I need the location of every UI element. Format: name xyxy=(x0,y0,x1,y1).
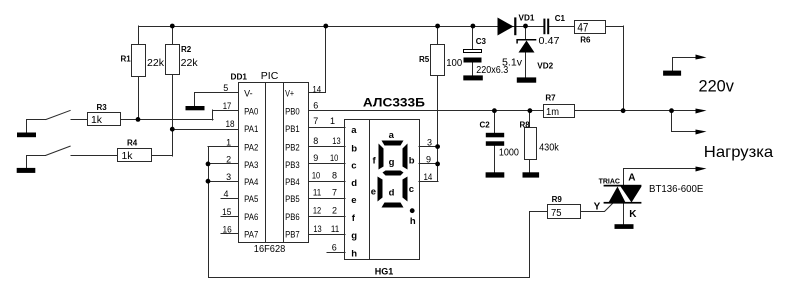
svg-text:12: 12 xyxy=(313,206,321,216)
resistor R6 xyxy=(575,21,606,34)
svg-text:a: a xyxy=(351,125,357,136)
svg-text:4: 4 xyxy=(223,189,228,199)
svg-text:Нагрузка: Нагрузка xyxy=(704,144,774,161)
ground R8 xyxy=(523,172,540,177)
svg-text:V-: V- xyxy=(244,88,253,98)
wire R4 row xyxy=(71,155,118,157)
svg-text:BT136-600E: BT136-600E xyxy=(649,184,704,195)
svg-text:PB2: PB2 xyxy=(285,143,300,153)
node PA3 / gate net xyxy=(206,162,211,167)
svg-text:17: 17 xyxy=(223,101,232,111)
switch S2 lever xyxy=(45,146,70,156)
switch S1 lever xyxy=(46,110,71,119)
wire PA2 PA3 PA4 stubs xyxy=(208,146,238,148)
svg-text:DD1: DD1 xyxy=(231,73,248,82)
svg-text:14: 14 xyxy=(312,85,321,95)
svg-text:13: 13 xyxy=(313,224,321,234)
svg-text:PA7: PA7 xyxy=(244,230,258,240)
svg-text:220v: 220v xyxy=(699,76,735,95)
wire R2 leads xyxy=(172,26,174,44)
wire pin5 V- to ground xyxy=(195,93,239,107)
arrow terminal 220v mid rail xyxy=(696,109,707,114)
svg-text:3: 3 xyxy=(226,172,231,182)
resistor R9 xyxy=(548,205,581,219)
svg-text:HG1: HG1 xyxy=(375,267,394,277)
svg-text:1k: 1k xyxy=(91,115,103,126)
segment c xyxy=(403,177,408,202)
triac VS1 xyxy=(604,185,642,204)
svg-text:АЛС333Б: АЛС333Б xyxy=(363,97,425,109)
svg-text:2: 2 xyxy=(332,206,337,216)
node PA4 / gate net xyxy=(206,179,211,184)
wire triac cathode to ground xyxy=(623,203,625,224)
svg-text:h: h xyxy=(410,216,416,227)
svg-text:R4: R4 xyxy=(127,139,138,148)
svg-text:PB3: PB3 xyxy=(285,160,300,170)
digit segment labels xyxy=(371,130,416,227)
svg-text:PIC: PIC xyxy=(261,70,279,82)
svg-text:47: 47 xyxy=(577,21,588,35)
svg-text:R3: R3 xyxy=(97,103,108,112)
diode VD1 xyxy=(498,17,517,35)
svg-text:R6: R6 xyxy=(580,36,591,45)
svg-text:C1: C1 xyxy=(555,14,566,23)
node mid rail / terminals xyxy=(669,108,674,113)
wire mid rail PB0 to R7 to arrows xyxy=(309,110,543,112)
resistor R1 xyxy=(132,45,146,77)
svg-text:PB0: PB0 xyxy=(285,106,300,116)
arrow terminal 220v top xyxy=(696,55,707,60)
segment h dot xyxy=(410,208,415,213)
svg-text:1: 1 xyxy=(330,116,335,126)
svg-text:e: e xyxy=(371,186,376,197)
wire arrow3 branch xyxy=(672,111,696,132)
svg-text:8: 8 xyxy=(332,171,337,181)
zener VD2 xyxy=(517,40,536,44)
ground C2 xyxy=(486,172,505,177)
wire PA5 PA6 PA7 stubs xyxy=(221,198,238,200)
svg-text:14: 14 xyxy=(424,172,433,182)
wire R9 to gate xyxy=(581,203,614,212)
svg-text:1000: 1000 xyxy=(499,147,519,158)
ground triac xyxy=(615,224,634,229)
svg-text:6: 6 xyxy=(313,101,318,111)
svg-text:7: 7 xyxy=(313,116,318,126)
svg-text:1k: 1k xyxy=(122,151,134,162)
resistor R5 xyxy=(431,45,445,76)
capacitor C1 xyxy=(543,19,549,35)
wire R5 vertical xyxy=(437,26,439,44)
node +V rail / R5 top xyxy=(435,24,440,29)
svg-text:C3: C3 xyxy=(476,37,487,46)
wire 220v terminal xyxy=(673,58,696,71)
wire pin14 V+ up to rail xyxy=(309,27,326,93)
segment b xyxy=(403,144,408,170)
svg-text:c: c xyxy=(351,161,356,172)
svg-text:VD2: VD2 xyxy=(537,61,553,70)
svg-text:g: g xyxy=(351,230,357,241)
svg-text:b: b xyxy=(351,143,357,154)
segment d xyxy=(382,203,404,208)
svg-text:9: 9 xyxy=(313,153,318,163)
resistor R4 xyxy=(118,149,152,162)
svg-text:16: 16 xyxy=(223,224,232,234)
ground VD2 xyxy=(517,77,536,82)
node mid rail / R6 xyxy=(621,108,626,113)
segment f xyxy=(379,144,384,170)
svg-text:R8: R8 xyxy=(520,120,531,129)
node display pin9 xyxy=(435,162,440,167)
svg-text:2: 2 xyxy=(226,155,231,165)
svg-text:8: 8 xyxy=(313,136,318,146)
svg-text:d: d xyxy=(389,187,395,198)
svg-text:18: 18 xyxy=(226,119,235,129)
resistor R7 xyxy=(544,105,575,118)
ground switch1 xyxy=(17,133,36,138)
node mid rail / C2 xyxy=(492,108,497,113)
svg-text:75: 75 xyxy=(551,208,562,219)
svg-text:0.47: 0.47 xyxy=(539,36,560,47)
svg-text:11: 11 xyxy=(331,224,339,234)
display pin numbers xyxy=(330,116,341,252)
capacitor C2 xyxy=(486,133,504,146)
svg-text:5.1v: 5.1v xyxy=(502,57,522,68)
svg-text:g: g xyxy=(389,157,395,168)
svg-text:TRIAC: TRIAC xyxy=(599,178,620,185)
svg-text:e: e xyxy=(351,195,356,206)
node +V rail / VD2 xyxy=(523,24,528,29)
svg-text:1m: 1m xyxy=(546,107,559,118)
svg-text:15: 15 xyxy=(222,207,231,217)
svg-text:22k: 22k xyxy=(147,58,165,69)
segment e xyxy=(378,177,383,202)
node +V rail / pin14 xyxy=(323,24,328,29)
ground pin5 xyxy=(186,106,205,110)
wire triac load xyxy=(624,169,696,185)
wire C2 leads xyxy=(494,111,496,133)
svg-text:22k: 22k xyxy=(181,58,199,69)
svg-text:C2: C2 xyxy=(480,121,491,130)
capacitor C3 xyxy=(464,50,482,63)
svg-text:Y: Y xyxy=(594,201,601,212)
svg-text:PA0: PA0 xyxy=(244,106,258,116)
svg-text:PA6: PA6 xyxy=(244,212,258,222)
svg-text:R2: R2 xyxy=(181,45,192,54)
svg-text:10: 10 xyxy=(312,171,320,181)
svg-text:PB7: PB7 xyxy=(285,230,300,240)
wire C3 leads xyxy=(472,26,474,49)
svg-text:PA5: PA5 xyxy=(244,194,258,204)
pin names right column xyxy=(285,88,300,239)
node display pin3 xyxy=(435,144,440,149)
svg-text:VD1: VD1 xyxy=(519,14,535,23)
display HG1 box xyxy=(345,119,420,260)
arrow terminal 220v lower xyxy=(696,130,707,135)
wire bottom rail xyxy=(209,147,548,278)
wire switch2 xyxy=(27,156,46,168)
svg-text:5: 5 xyxy=(223,83,228,93)
node +V rail / R2 top xyxy=(170,24,175,29)
wire R8 leads xyxy=(529,111,531,128)
svg-text:a: a xyxy=(389,130,395,141)
svg-text:11: 11 xyxy=(313,188,321,198)
svg-text:R1: R1 xyxy=(121,55,132,64)
IC DD1 PIC16F628 xyxy=(239,82,309,243)
wire display common pins 3 9 14 xyxy=(419,146,438,148)
segment a xyxy=(382,141,404,146)
svg-text:PB6: PB6 xyxy=(285,212,300,222)
wire h stub xyxy=(327,252,345,254)
7-segment digit xyxy=(378,141,415,214)
svg-text:h: h xyxy=(351,249,357,260)
ground switch2 xyxy=(17,168,36,173)
pin names left column xyxy=(244,88,258,239)
svg-text:R9: R9 xyxy=(552,195,563,204)
svg-text:K: K xyxy=(629,209,637,220)
svg-text:A: A xyxy=(628,173,635,184)
svg-text:7: 7 xyxy=(332,188,337,198)
wire top rail xyxy=(139,26,543,28)
svg-text:PB5: PB5 xyxy=(285,194,300,204)
wire R1 leads xyxy=(138,26,140,44)
svg-text:PA4: PA4 xyxy=(244,177,258,187)
pin numbers right xyxy=(312,85,322,234)
svg-text:PA1: PA1 xyxy=(244,124,258,134)
node +V rail / C3 xyxy=(471,24,476,29)
wire switch1 xyxy=(27,120,46,133)
segment g xyxy=(383,171,404,176)
svg-text:b: b xyxy=(409,155,415,166)
svg-text:1: 1 xyxy=(226,137,231,147)
ground C3 xyxy=(463,75,483,80)
svg-text:PB4: PB4 xyxy=(285,177,300,187)
svg-text:PB1: PB1 xyxy=(285,124,300,134)
svg-text:9: 9 xyxy=(426,155,431,165)
node PA0 net / R1 bottom xyxy=(136,117,141,122)
svg-text:R5: R5 xyxy=(419,55,430,64)
display letters a-h xyxy=(351,125,357,260)
resistor R3 xyxy=(88,113,121,126)
wire R3 row xyxy=(71,119,87,121)
wire PB1..PB7 to display xyxy=(309,127,345,129)
svg-text:6: 6 xyxy=(332,243,337,253)
wire VD2 leads xyxy=(525,26,527,39)
pin numbers left xyxy=(222,83,235,234)
terminal bar 220v xyxy=(663,71,681,76)
wire PA1 pin18 xyxy=(172,129,238,131)
svg-text:13: 13 xyxy=(332,136,340,146)
svg-text:V+: V+ xyxy=(285,88,294,98)
resistor R8 xyxy=(525,128,537,160)
display right pin numbers 3 9 14 xyxy=(424,137,433,182)
svg-text:R7: R7 xyxy=(545,94,556,103)
resistor R2 xyxy=(166,45,180,75)
node PA1 net / R2 bottom xyxy=(170,127,175,132)
svg-text:3: 3 xyxy=(427,137,432,147)
svg-text:c: c xyxy=(409,184,414,195)
svg-text:430k: 430k xyxy=(539,143,560,154)
wire R6 output down xyxy=(623,26,625,111)
svg-text:16F628: 16F628 xyxy=(254,244,286,255)
svg-text:PA2: PA2 xyxy=(244,143,258,153)
svg-text:10: 10 xyxy=(330,153,338,163)
arrow terminal load xyxy=(696,167,707,172)
node mid rail / R8 xyxy=(528,108,533,113)
svg-text:PA3: PA3 xyxy=(244,160,258,170)
svg-text:d: d xyxy=(351,178,357,189)
svg-text:100: 100 xyxy=(446,58,462,69)
